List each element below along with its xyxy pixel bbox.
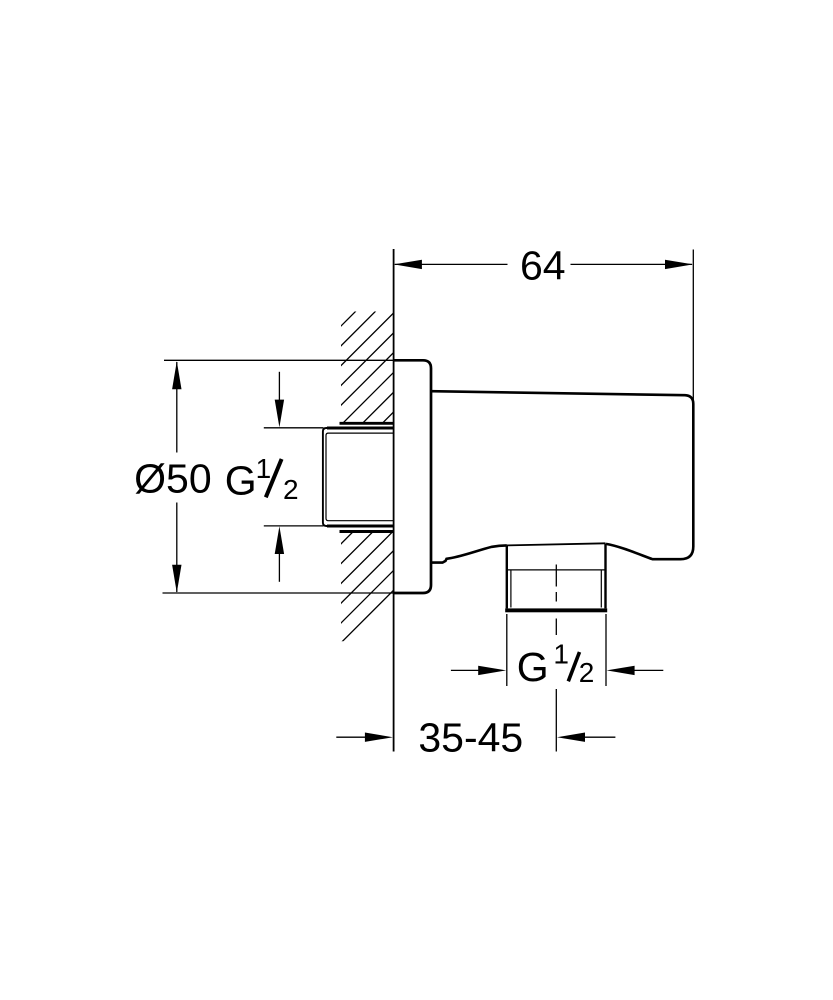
- outlet collar top edge: [507, 543, 606, 545]
- svg-text:35-45: 35-45: [418, 714, 523, 760]
- dimension 64: [394, 243, 693, 400]
- outlet right edge: [604, 544, 606, 609]
- wall hatching upper section: [0, 240, 645, 700]
- inlet G1/2 label and arrows: [225, 372, 324, 582]
- inlet thread fitting thick top edge: [327, 426, 394, 429]
- outlet thread inner left line: [510, 570, 512, 608]
- inlet thread fitting G1/2 outer contour: [323, 428, 394, 526]
- wall hole edge upper stub: [340, 422, 394, 425]
- inlet thread fitting inner thread contour: [326, 433, 394, 521]
- svg-text:Ø50: Ø50: [134, 456, 212, 502]
- svg-text:1: 1: [256, 453, 272, 484]
- svg-text:64: 64: [520, 243, 566, 289]
- svg-text:2: 2: [283, 474, 299, 505]
- svg-text:1: 1: [553, 638, 569, 669]
- body outline bottom left: [431, 545, 507, 562]
- wall hatching lower section: [106, 240, 744, 700]
- inlet thread fitting thick bottom edge: [327, 524, 394, 527]
- outlet G1/2 dimension: [451, 614, 663, 690]
- outlet bottom end bar: [505, 608, 607, 612]
- wall hole edge lower stub: [340, 530, 394, 533]
- outlet thread inner right line: [600, 570, 602, 608]
- wall flange outline: [394, 360, 431, 593]
- wall line: [393, 249, 395, 752]
- dimension D50: [134, 360, 393, 593]
- svg-text:G: G: [517, 644, 549, 690]
- svg-text:2: 2: [579, 657, 595, 688]
- outlet centerline: [555, 565, 557, 752]
- outlet thread shoulder line: [507, 569, 606, 571]
- body outline top and right: [431, 391, 693, 559]
- svg-text:G: G: [225, 458, 257, 504]
- outlet left edge: [506, 545, 508, 608]
- dimension 35-45: [336, 714, 615, 760]
